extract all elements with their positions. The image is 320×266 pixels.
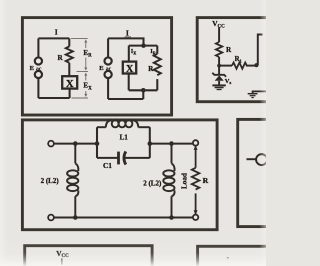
output terminal top (193, 140, 198, 145)
svg-text:2 (L2): 2 (L2) (41, 177, 60, 185)
inductor 2(L2) right branch (163, 144, 174, 218)
wire branch R lower (156, 79, 158, 90)
annotation ticks E_R / E_X (71, 38, 88, 98)
zener diode anode triangle (215, 75, 224, 80)
wire left lower (107, 78, 109, 99)
ac source Eac (circuit 1) (35, 57, 42, 64)
panel border bottom-left (25, 246, 152, 266)
svg-text:R: R (58, 54, 64, 62)
panel border middle (22, 120, 217, 230)
wire elbow right bottom (253, 91, 266, 93)
inductor 2(L2) left branch (67, 144, 78, 218)
capacitor C1 (97, 157, 118, 159)
wire top mid (150, 143, 193, 145)
node L2a top (73, 141, 78, 146)
wire from Vcc (218, 28, 220, 43)
ac source Eac (circuit 2) (105, 57, 112, 64)
svg-text:R: R (203, 176, 209, 185)
svg-text:X: X (126, 64, 134, 75)
wire right mid (68, 63, 70, 76)
wire left upper (37, 38, 39, 57)
wire right upper (68, 38, 70, 46)
wire bottom (54, 216, 193, 218)
svg-text:2 (L2): 2 (L2) (143, 180, 162, 188)
panel border top-left (22, 18, 171, 115)
node (217, 64, 221, 68)
node tank left (95, 141, 100, 146)
tank left vertical (96, 127, 98, 158)
resistor R1 (232, 62, 247, 68)
input terminal top (48, 141, 54, 147)
svg-text:L1: L1 (120, 133, 129, 141)
node tank right (148, 141, 153, 146)
svg-text:ac: ac (106, 66, 112, 72)
tiny mark bottom-right panel (227, 257, 229, 259)
wire branch X upper (128, 46, 130, 62)
load resistor R (192, 146, 200, 215)
resistor R (regulator) (216, 42, 222, 57)
wire drop (142, 90, 144, 99)
wire node to zener (218, 66, 220, 75)
node L2a bottom (73, 215, 78, 220)
wire R to node (218, 57, 220, 66)
resistor R (circuit 1) (66, 46, 73, 62)
node bottom (141, 88, 146, 93)
wire left upper (107, 38, 109, 57)
output terminal bottom (193, 215, 198, 220)
node top (141, 43, 146, 48)
zener diode cathode bar (212, 73, 226, 77)
svg-text:E: E (99, 65, 104, 72)
panel border bottom-right (198, 246, 276, 266)
wire rail top (129, 45, 158, 47)
wire node to R1 (219, 65, 232, 67)
node L2b top (169, 141, 174, 146)
wire branch X lower (128, 74, 130, 91)
svg-text:X: X (66, 78, 74, 90)
node L2b bottom (169, 215, 174, 220)
wire rail bottom (129, 89, 158, 91)
input terminal bottom (48, 215, 54, 221)
wire top (circuit 2) (108, 38, 143, 45)
svg-text:R: R (226, 45, 232, 54)
svg-text:C1: C1 (103, 161, 112, 170)
wire bottom (38, 97, 69, 99)
PANELS (22, 18, 275, 266)
reactance box X (circuit 2) (123, 62, 136, 74)
svg-text:ac: ac (36, 66, 42, 72)
wire bottom (108, 98, 143, 100)
svg-text:IX: IX (131, 49, 137, 55)
tank right vertical (149, 127, 151, 158)
wire right lower (69, 89, 71, 98)
wire top left (54, 143, 97, 145)
wire top (circuit 1) (38, 37, 69, 39)
svg-text:E: E (30, 65, 35, 72)
svg-text:Load: Load (181, 173, 189, 189)
svg-text:I: I (126, 29, 129, 38)
wire left lower (37, 78, 39, 98)
inductor L1 (97, 120, 150, 127)
wire branch R upper (156, 46, 158, 54)
wire stub right panel (247, 158, 257, 160)
panel border top-right (197, 18, 273, 102)
node 2 (254, 63, 258, 67)
resistor R (circuit 2) (154, 54, 161, 75)
reactance box X (circuit 1) (62, 76, 77, 88)
wire up elbow (258, 35, 263, 66)
component circle (cut off at edge) (256, 154, 267, 165)
ground (below zener) (212, 85, 225, 89)
wire zener to ground (218, 81, 220, 85)
wire R1 to node2 (246, 65, 256, 67)
wire stub below Vcc (61, 258, 63, 265)
panel border right (238, 119, 274, 226)
svg-text:I: I (55, 28, 58, 37)
ground (right edge) (248, 94, 258, 98)
